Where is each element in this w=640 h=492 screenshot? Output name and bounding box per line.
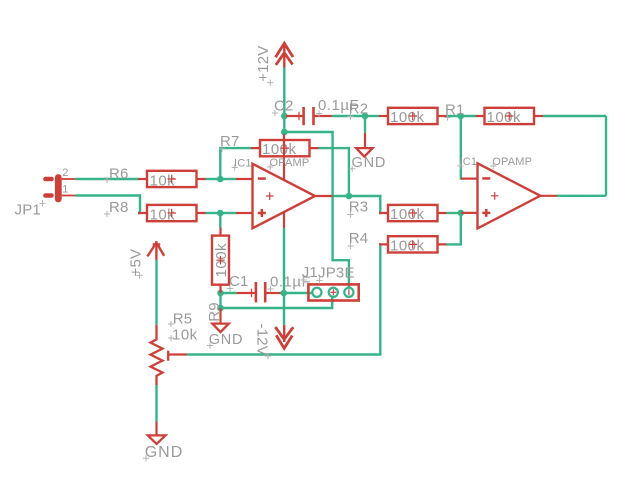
- svg-text:GND: GND: [352, 155, 387, 171]
- resistor R3: [347, 198, 446, 223]
- wire R5 bottom to GND: [155, 385, 157, 422]
- svg-text:+5V: +5V: [128, 249, 145, 277]
- wire gnd node to JP3E pin2: [221, 297, 333, 308]
- gate origin cross: [491, 192, 499, 200]
- wire JP1 pin1 to R8: [75, 196, 140, 214]
- capacitor C1: [227, 273, 311, 302]
- wire GND node to R2: [365, 115, 379, 117]
- wire +5V to R5: [155, 260, 157, 325]
- junction C1 gnd: [217, 305, 224, 312]
- wire R1 right to feedback: [543, 115, 606, 117]
- plus mark: [482, 209, 490, 217]
- wire R1 node down to op2 minus: [460, 116, 463, 179]
- svg-text:JP1: JP1: [15, 201, 41, 218]
- op-amp U1 gate B (IC1 OPAMP): [457, 156, 557, 229]
- junction op1 output: [346, 193, 353, 200]
- junction V+: [281, 129, 288, 136]
- junction C2 right GND: [362, 113, 369, 120]
- ground GND (R5 bottom): [143, 422, 183, 462]
- wire C1 right to V- node: [281, 292, 285, 294]
- junction op1 plus: [217, 210, 224, 217]
- pin 2 circle: [329, 288, 338, 297]
- svg-text:GND: GND: [145, 444, 184, 461]
- junction R9 bottom: [217, 290, 224, 297]
- pin output: [540, 195, 557, 197]
- wire plus node down to R9: [219, 213, 221, 228]
- wire V- node to JP3E pin1: [284, 292, 312, 294]
- wire R9 node to gnd node: [219, 293, 221, 308]
- pin V-: [283, 212, 285, 228]
- pin plus input: [236, 212, 253, 214]
- wire op1 output to R3: [333, 196, 381, 213]
- svg-text:100k: 100k: [390, 237, 425, 254]
- wire minus node to op1: [220, 178, 236, 180]
- svg-text:C2: C2: [274, 98, 294, 115]
- potentiometer R5: [151, 310, 198, 385]
- resistor R6: [104, 165, 206, 189]
- wire +12V to C2 node: [283, 68, 285, 117]
- wire R4 left to R5 wiper: [187, 244, 380, 354]
- wire op2 output to feedback: [557, 195, 606, 197]
- svg-text:R3: R3: [349, 198, 369, 215]
- svg-text:R6: R6: [109, 165, 129, 182]
- junction op2 plus: [458, 210, 465, 217]
- svg-text:2: 2: [62, 167, 68, 179]
- pin origin crosses: [330, 289, 349, 295]
- junction C2 left: [281, 113, 288, 120]
- svg-text:OPAMP: OPAMP: [270, 157, 310, 169]
- svg-text:R7: R7: [220, 133, 240, 150]
- svg-text:J1: J1: [302, 264, 318, 281]
- wire feedback vertical: [605, 116, 607, 196]
- wire R7 left to minus node: [220, 148, 251, 179]
- svg-text:C1: C1: [229, 273, 249, 290]
- svg-text:100k: 100k: [390, 206, 425, 223]
- pin minus input: [236, 178, 253, 180]
- svg-text:GND: GND: [209, 332, 244, 348]
- svg-text:-12V: -12V: [254, 324, 271, 357]
- pin plus input: [461, 212, 478, 214]
- svg-text:100k: 100k: [390, 109, 425, 126]
- wire V+ node to JP3E pin3: [284, 132, 349, 288]
- wire plus node to op1: [220, 212, 236, 214]
- wire op1 V- down to node: [283, 228, 285, 293]
- wire R6 to minus node: [206, 178, 221, 180]
- wire C2 node to V+ node: [283, 116, 285, 132]
- svg-text:JP3E: JP3E: [318, 265, 355, 282]
- ground GND (C2 node): [349, 133, 386, 172]
- svg-text:1: 1: [62, 183, 68, 195]
- junction op1 minus: [217, 176, 224, 183]
- pin 1: [62, 195, 76, 197]
- wire V- node to -12V: [283, 293, 285, 325]
- supply +12V: [255, 43, 293, 85]
- wire C2 right to GND node: [332, 115, 365, 117]
- junction C1 right: [281, 290, 288, 297]
- pin 3 circle: [344, 288, 353, 297]
- supply +5V: [128, 241, 165, 278]
- svg-text:+12V: +12V: [255, 46, 272, 82]
- minus mark: [258, 177, 266, 180]
- connector J1 JP3E: [300, 264, 358, 301]
- svg-text:0.1µF: 0.1µF: [318, 97, 359, 114]
- pin minus input: [461, 178, 478, 180]
- resistor R4: [347, 230, 446, 254]
- minus mark: [482, 177, 490, 180]
- wire R7 right to output node: [319, 148, 349, 196]
- pin output: [315, 195, 333, 197]
- wire R4 right to op2 plus node: [447, 213, 461, 244]
- wire R8 to plus node: [206, 212, 221, 214]
- wire R2 to R1 node: [447, 115, 476, 117]
- capacitor C2: [272, 97, 359, 125]
- plus mark: [258, 209, 266, 217]
- svg-text:100k: 100k: [262, 141, 297, 158]
- wire JP1 pin2 to R6: [75, 178, 138, 180]
- svg-text:R8: R8: [109, 199, 129, 216]
- wire R9 bottom node to C1: [221, 292, 237, 294]
- resistor R8: [104, 199, 206, 224]
- gate origin cross: [266, 192, 274, 200]
- supply -12V: [254, 324, 294, 360]
- pin 2: [62, 178, 76, 180]
- resistor R2: [347, 101, 446, 127]
- svg-text:R4: R4: [349, 230, 369, 247]
- connector JP1: [15, 167, 76, 218]
- wire R3 to op2 plus node: [447, 212, 461, 214]
- svg-text:10k: 10k: [172, 326, 198, 343]
- resistor R7: [219, 133, 319, 158]
- resistor R9 (vertical): [206, 228, 230, 328]
- svg-text:OPAMP: OPAMP: [492, 156, 532, 168]
- op-amp U1 gate A (IC1 OPAMP): [232, 134, 333, 228]
- svg-text:100k: 100k: [487, 109, 522, 126]
- pin V+: [283, 134, 285, 180]
- pin 1 circle: [312, 288, 321, 297]
- ground GND (R9/C1 node): [207, 308, 243, 349]
- junction R1 left: [458, 113, 465, 120]
- svg-text:R5: R5: [173, 310, 193, 327]
- wire GND node down: [364, 116, 366, 133]
- resistor R1: [444, 102, 543, 127]
